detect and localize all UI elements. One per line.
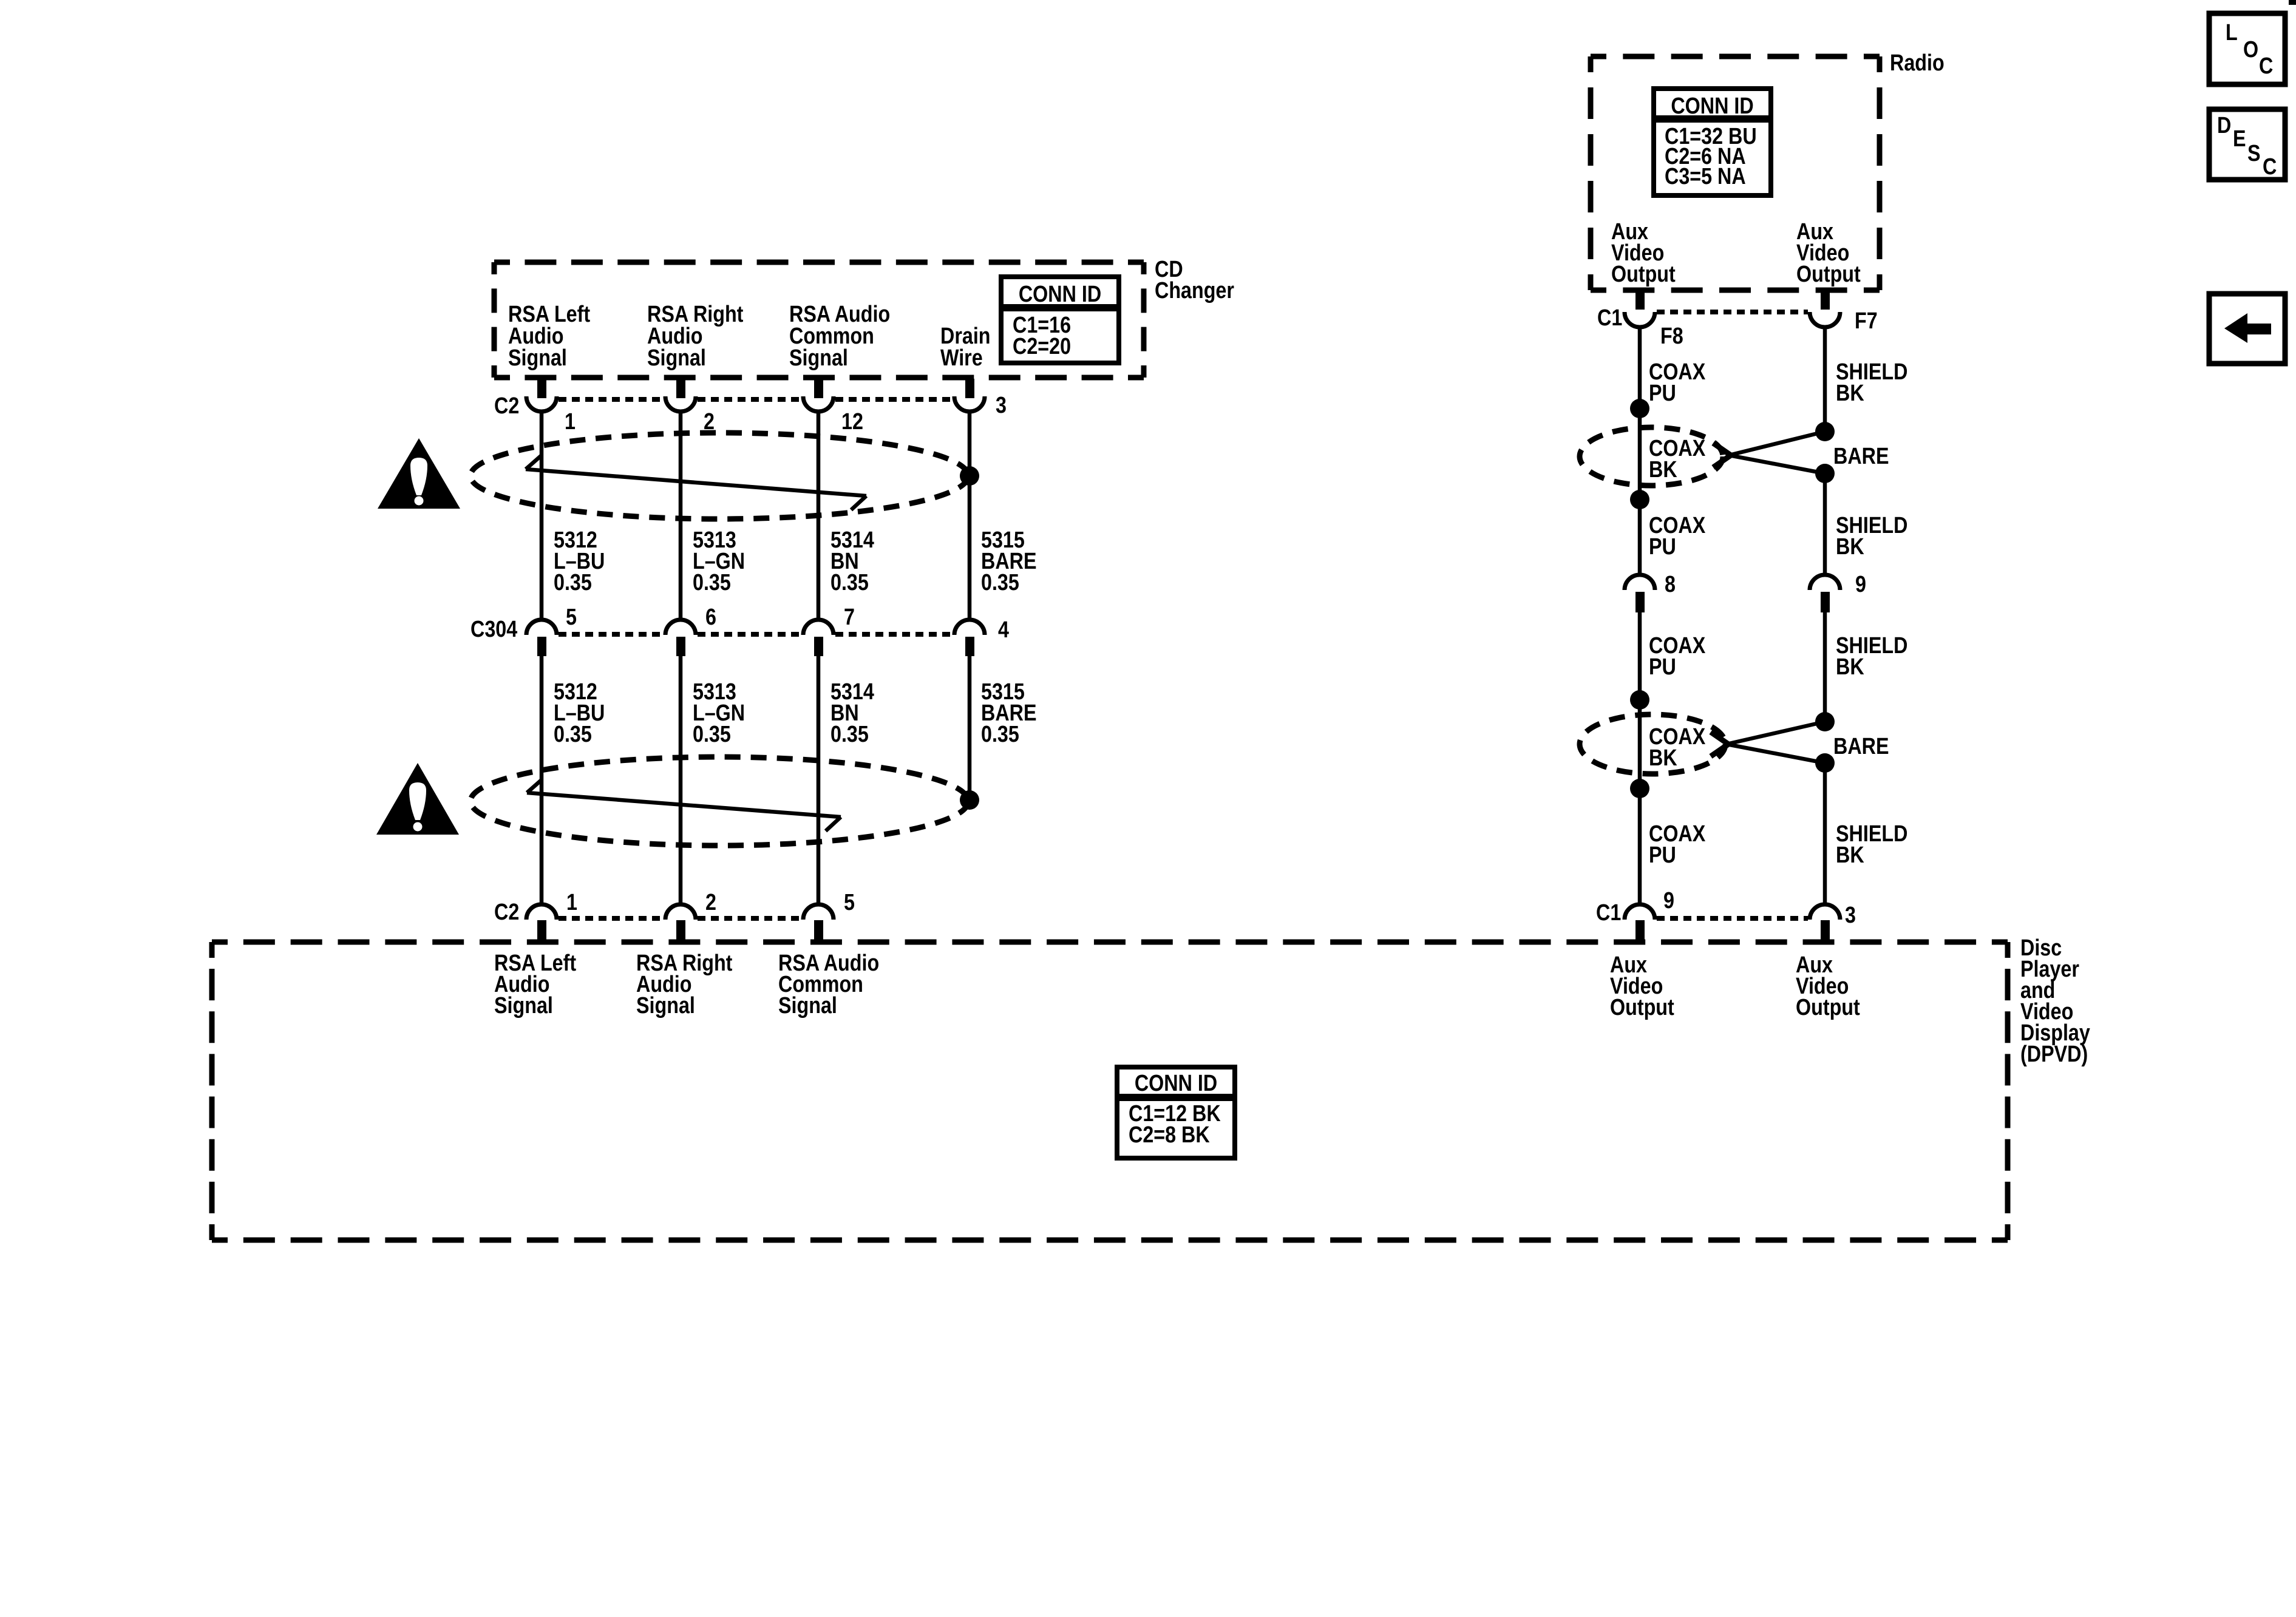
svg-text:BK: BK — [1836, 381, 1864, 406]
svg-text:C2=8 BK: C2=8 BK — [1129, 1122, 1210, 1148]
svg-text:C: C — [2259, 53, 2273, 79]
svg-text:PU: PU — [1649, 842, 1676, 868]
svg-text:8: 8 — [1665, 572, 1676, 597]
svg-text:1: 1 — [565, 409, 576, 435]
svg-text:Signal: Signal — [494, 993, 553, 1019]
svg-text:3: 3 — [996, 393, 1007, 418]
svg-text:PU: PU — [1649, 534, 1676, 560]
svg-text:(DPVD): (DPVD) — [2020, 1042, 2088, 1067]
svg-text:C1: C1 — [1596, 900, 1621, 926]
svg-text:1: 1 — [566, 890, 577, 915]
svg-text:CONN ID: CONN ID — [1671, 93, 1753, 119]
svg-text:BK: BK — [1836, 842, 1864, 868]
svg-text:0.35: 0.35 — [981, 570, 1019, 595]
svg-text:Signal: Signal — [636, 993, 695, 1019]
svg-text:BARE: BARE — [1833, 444, 1889, 469]
svg-text:2: 2 — [705, 890, 716, 915]
svg-text:3: 3 — [1845, 903, 1856, 928]
svg-text:Changer: Changer — [1155, 278, 1234, 303]
svg-text:4: 4 — [998, 617, 1009, 643]
svg-text:C3=5 NA: C3=5 NA — [1665, 164, 1746, 189]
svg-text:D: D — [2217, 113, 2231, 138]
svg-text:Output: Output — [1610, 995, 1674, 1020]
svg-text:9: 9 — [1663, 888, 1674, 914]
svg-text:BK: BK — [1836, 534, 1864, 560]
svg-text:C1: C1 — [1597, 305, 1622, 331]
svg-text:0.35: 0.35 — [830, 570, 869, 595]
svg-text:CONN ID: CONN ID — [1135, 1071, 1217, 1096]
svg-text:Signal: Signal — [789, 345, 848, 371]
svg-text:Signal: Signal — [647, 345, 706, 371]
svg-text:Signal: Signal — [508, 345, 567, 371]
svg-text:CONN ID: CONN ID — [1019, 282, 1101, 307]
svg-text:Radio: Radio — [1890, 50, 1944, 76]
svg-text:F7: F7 — [1855, 308, 1878, 334]
svg-text:L: L — [2226, 20, 2238, 46]
svg-text:Output: Output — [1796, 995, 1860, 1020]
svg-text:5: 5 — [566, 605, 577, 630]
svg-text:C: C — [2263, 154, 2277, 180]
svg-text:0.35: 0.35 — [693, 722, 731, 747]
svg-text:PU: PU — [1649, 654, 1676, 680]
svg-text:0.35: 0.35 — [830, 722, 869, 747]
svg-text:BK: BK — [1649, 745, 1677, 771]
svg-text:F8: F8 — [1660, 324, 1683, 349]
svg-text:C304: C304 — [470, 617, 518, 642]
svg-text:7: 7 — [844, 605, 855, 630]
svg-text:Wire: Wire — [940, 345, 983, 371]
svg-text:Signal: Signal — [778, 993, 837, 1019]
svg-text:C2=20: C2=20 — [1013, 334, 1071, 359]
svg-text:BK: BK — [1649, 457, 1677, 483]
svg-text:5: 5 — [844, 890, 855, 915]
svg-text:0.35: 0.35 — [981, 722, 1019, 747]
svg-text:0.35: 0.35 — [693, 570, 731, 595]
svg-text:12: 12 — [841, 409, 863, 435]
svg-text:C2: C2 — [494, 393, 519, 419]
svg-text:Output: Output — [1611, 262, 1676, 287]
svg-text:S: S — [2247, 141, 2261, 166]
svg-text:6: 6 — [705, 605, 716, 630]
svg-text:O: O — [2243, 37, 2258, 63]
svg-text:0.35: 0.35 — [554, 570, 592, 595]
svg-text:Output: Output — [1796, 262, 1861, 287]
svg-text:E: E — [2233, 126, 2246, 152]
svg-text:BK: BK — [1836, 654, 1864, 680]
svg-text:0.35: 0.35 — [554, 722, 592, 747]
svg-text:C2: C2 — [494, 900, 519, 925]
svg-text:PU: PU — [1649, 381, 1676, 406]
svg-text:9: 9 — [1855, 572, 1866, 597]
svg-text:BARE: BARE — [1833, 734, 1889, 759]
